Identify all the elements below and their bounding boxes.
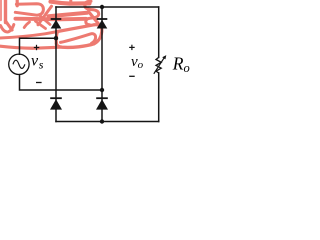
tick at x70 top [69,0,72,3]
node dot right branch y=90 [100,88,104,92]
wire right rail upper [158,7,160,57]
left vertical stroke [4,0,7,23]
ring bottom band [56,44,94,48]
band A top [51,2,90,4]
resistor Ro zigzag [156,57,161,73]
wire top rail [56,6,159,8]
X stroke falling a [40,16,50,25]
X stroke falling b [36,21,46,28]
node dot top rail x=102 [100,5,104,9]
X stroke rising [38,6,52,25]
ring right arc [94,25,102,44]
left v-dip stroke [1,25,14,32]
wire bottom rail [56,121,159,123]
node dot bottom rail x=102 [100,119,104,123]
S cluster bowls [85,1,99,25]
left edge stroke [0,0,2,20]
S cluster leg [89,12,100,25]
ring top band [58,25,95,32]
wire right rail lower [158,73,160,122]
resistor Ro arrow [154,55,167,74]
diode D2 top-right [97,19,108,29]
left diagonal stroke [6,21,13,30]
wire source top lead [20,38,57,54]
band B middle [49,13,88,16]
minus sign output [129,75,135,77]
flattened ring P [15,4,43,15]
plus sign source [34,45,40,50]
plus sign output [129,45,135,50]
diode D1 top-left [51,19,62,29]
node dot left branch y=38 [54,36,58,40]
band C long bar [15,17,86,21]
small arc lower-left of X [24,22,29,28]
ring left closure [56,32,57,44]
ring inner spiral [61,34,96,44]
wire source bottom lead [20,75,103,90]
corner vertical mark [16,1,19,6]
wire right branch [101,7,103,122]
source Vs circle [9,54,29,74]
swoosh lower line [0,46,60,48]
swoosh upper line [0,32,58,39]
diode D4 bottom-right [96,98,108,109]
diode D3 bottom-left [50,98,62,109]
red watermark scribble [0,0,102,48]
sine symbol [13,60,25,68]
minus sign source [36,82,42,84]
wire left branch [55,7,57,122]
